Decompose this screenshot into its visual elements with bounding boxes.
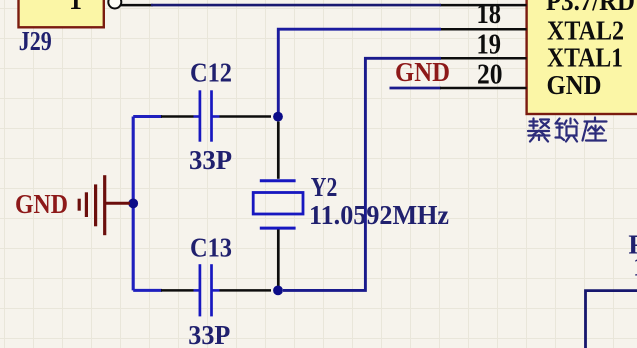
value 11.0592MHz	[309, 200, 449, 230]
partial value (clipped)	[633, 252, 637, 282]
designator Y2	[311, 172, 338, 202]
connector J29	[19, 0, 104, 27]
svg-text:GND: GND	[395, 57, 450, 87]
wire XTAL1 net	[283, 58, 441, 290]
svg-text:33P: 33P	[189, 145, 232, 175]
svg-text:20: 20	[477, 59, 503, 91]
svg-text:GND: GND	[547, 70, 602, 100]
wire J29 pin1 to P3.7/RD	[151, 4, 441, 7]
svg-text:1: 1	[69, 0, 82, 15]
pin 19 XTAL1	[440, 28, 623, 72]
svg-text:11.0592MHz: 11.0592MHz	[309, 200, 449, 230]
svg-text:19: 19	[477, 28, 502, 60]
net label GND (pin 20)	[395, 57, 450, 87]
designator C13	[190, 232, 232, 262]
wire to C13 left	[133, 289, 162, 292]
wire XTAL2 net	[278, 29, 441, 114]
pin 20 GND	[390, 59, 602, 101]
pin 17 P3.7/RD	[440, 0, 635, 16]
pin 18 XTAL2	[440, 0, 624, 45]
IC U1 socket box	[527, 0, 637, 114]
svg-text:GND: GND	[15, 189, 68, 219]
svg-text:XTAL2: XTAL2	[547, 15, 624, 45]
junction at C13	[273, 286, 283, 296]
svg-text:C12: C12	[190, 57, 232, 87]
value 33P of C12	[189, 145, 232, 175]
crystal Y2	[253, 122, 303, 287]
pin of C13 right	[212, 289, 271, 292]
pin of C13 left	[161, 289, 199, 292]
svg-text:J29: J29	[19, 26, 52, 56]
junction at GND	[128, 199, 138, 209]
svg-text:33P: 33P	[188, 320, 230, 348]
svg-text:P3.7/RD: P3.7/RD	[546, 0, 635, 16]
pin 1 of J29	[69, 0, 153, 15]
capacitor C12	[200, 90, 212, 141]
designator C12	[190, 57, 232, 87]
designator J29	[19, 26, 52, 56]
wire to C12 left	[133, 115, 162, 118]
capacitor C13	[200, 264, 212, 316]
svg-text:Y2: Y2	[311, 172, 338, 202]
svg-text:C13: C13	[190, 232, 232, 262]
junction at C12/XTAL2	[273, 112, 283, 122]
svg-text:18: 18	[477, 0, 502, 30]
value 33P of C13	[188, 320, 230, 348]
wire left vertical	[132, 117, 135, 291]
label 紧锁座	[528, 118, 607, 142]
svg-text:XTAL1: XTAL1	[547, 42, 623, 72]
power port GND (left)	[15, 175, 130, 235]
pin of C12 right	[212, 115, 271, 118]
svg-text:10: 10	[633, 252, 637, 282]
pin of C12 left	[161, 115, 199, 118]
wire bottom right	[586, 291, 637, 348]
partial designator (clipped)	[628, 229, 637, 259]
